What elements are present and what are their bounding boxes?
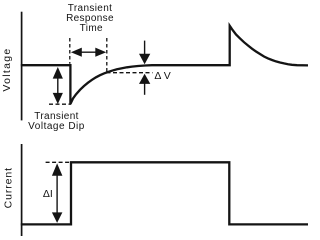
current trace — [21, 162, 308, 224]
delta V up arrow — [144, 83, 146, 95]
svg-text:Voltage Dip: Voltage Dip — [28, 121, 85, 132]
current axis — [21, 144, 23, 236]
dashed vertical left (response time start) — [69, 38, 71, 64]
svg-text:Time: Time — [80, 23, 103, 34]
voltage axis — [21, 12, 23, 121]
svg-text:Δ V: Δ V — [154, 70, 170, 82]
transient voltage dip double arrow — [57, 77, 59, 95]
dip bottom dashed line — [49, 103, 71, 105]
dashed vertical right (response time end) — [106, 38, 108, 72]
delta V dashed line — [107, 72, 153, 74]
delta V down arrow — [144, 41, 146, 55]
delta I dashed line — [46, 161, 70, 163]
svg-text:ΔI: ΔI — [43, 188, 53, 200]
svg-text:Current: Current — [3, 167, 15, 208]
response time double arrow — [80, 51, 97, 53]
svg-text:Voltage: Voltage — [1, 47, 13, 91]
svg-text:Transient: Transient — [68, 3, 112, 14]
delta I double arrow — [56, 174, 58, 214]
voltage trace — [21, 26, 308, 104]
